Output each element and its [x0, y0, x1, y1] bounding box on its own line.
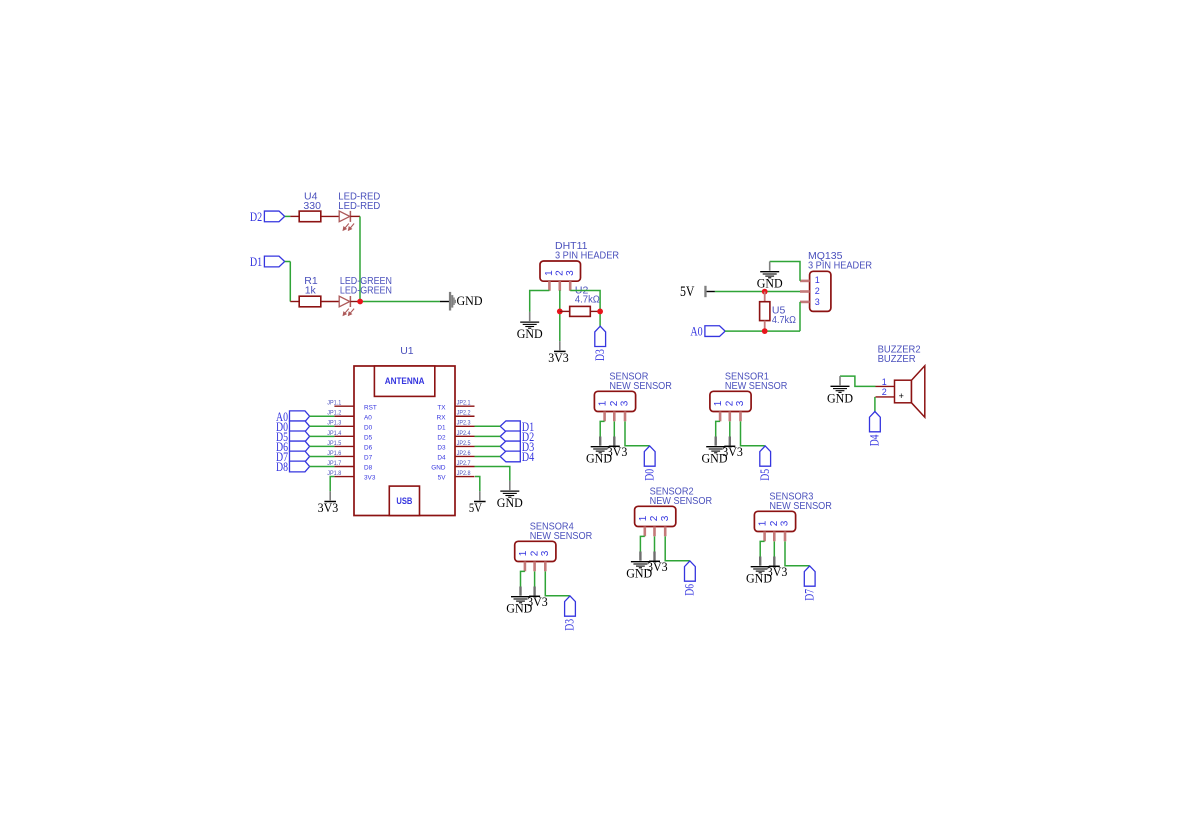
svg-text:3 PIN HEADER: 3 PIN HEADER [555, 249, 619, 261]
wire [625, 421, 649, 445]
wire [310, 445, 335, 447]
svg-text:D3: D3 [437, 445, 446, 452]
pin D3 [595, 326, 606, 346]
resistor R1 [299, 296, 321, 307]
svg-text:NEW SENSOR: NEW SENSOR [650, 495, 713, 507]
wire [310, 415, 335, 417]
svg-text:3V3: 3V3 [548, 351, 569, 365]
svg-text:GND: GND [497, 496, 523, 510]
wire [715, 291, 800, 293]
svg-text:3: 3 [620, 400, 631, 406]
ground [497, 481, 523, 510]
svg-text:1: 1 [713, 400, 724, 406]
svg-text:2: 2 [815, 286, 820, 296]
svg-text:JP2.8: JP2.8 [457, 470, 471, 477]
junction [357, 299, 363, 305]
svg-text:GND: GND [757, 277, 783, 291]
header SENSOR3 [754, 511, 795, 531]
svg-text:3 PIN HEADER: 3 PIN HEADER [808, 260, 872, 272]
wire [665, 536, 689, 560]
power symbol 3V3 [548, 341, 569, 365]
header MQ135 [810, 271, 831, 311]
pin D5 [760, 446, 771, 466]
wire [310, 435, 335, 437]
svg-text:3: 3 [815, 297, 820, 307]
pin D8 [290, 461, 310, 472]
svg-text:BUZZER: BUZZER [878, 353, 916, 365]
svg-text:2: 2 [882, 387, 887, 397]
wire [840, 376, 876, 386]
wire [285, 261, 291, 263]
pin A0 [290, 411, 310, 422]
svg-text:3: 3 [565, 270, 576, 276]
wire [640, 536, 644, 551]
wire [310, 425, 335, 427]
svg-text:D0: D0 [364, 424, 373, 431]
pin D5 [290, 431, 310, 442]
svg-text:D8: D8 [276, 459, 288, 474]
svg-text:D5: D5 [364, 434, 373, 441]
wire [799, 302, 801, 331]
svg-text:D0: D0 [642, 469, 656, 481]
svg-text:TX: TX [437, 404, 446, 411]
svg-text:LED-RED: LED-RED [338, 200, 380, 212]
ground [626, 552, 652, 581]
wire [741, 421, 765, 445]
pin D3 [500, 441, 520, 452]
svg-text:4.7kΩ: 4.7kΩ [772, 314, 796, 326]
pin D3 [565, 596, 576, 616]
pin JP1.8 [327, 470, 376, 482]
svg-text:U1: U1 [400, 345, 414, 357]
wire [290, 301, 299, 303]
svg-text:GND: GND [457, 294, 483, 308]
svg-text:RST: RST [364, 404, 377, 411]
pin JP2.4 [437, 430, 474, 442]
wire [613, 421, 615, 436]
svg-text:JP2.4: JP2.4 [457, 430, 471, 437]
ANTENNA block [374, 366, 434, 396]
pin JP1.7 [327, 460, 372, 472]
ground [517, 312, 543, 341]
svg-text:D4: D4 [868, 434, 882, 446]
svg-text:2: 2 [609, 400, 620, 406]
wire [321, 215, 339, 217]
wire [545, 571, 569, 595]
ground [746, 557, 772, 586]
wire [590, 310, 600, 312]
pin D2 [500, 431, 520, 442]
power symbol 3V3 [607, 437, 628, 460]
svg-text:JP2.7: JP2.7 [457, 460, 471, 467]
svg-text:NEW SENSOR: NEW SENSOR [530, 530, 593, 542]
wire [770, 262, 800, 281]
svg-text:LED-GREEN: LED-GREEN [340, 284, 392, 296]
svg-text:GND: GND [431, 465, 446, 472]
resistor U4 [299, 211, 321, 222]
wire [874, 397, 876, 412]
svg-text:JP2.1: JP2.1 [457, 400, 471, 407]
svg-text:1k: 1k [305, 284, 317, 296]
ground [827, 376, 853, 405]
ground [702, 437, 728, 466]
svg-text:USB: USB [396, 496, 412, 507]
svg-text:4.7kΩ: 4.7kΩ [575, 294, 600, 306]
svg-text:5V: 5V [680, 284, 695, 300]
svg-text:3V3: 3V3 [364, 475, 376, 482]
svg-text:3V3: 3V3 [722, 445, 743, 459]
svg-text:GND: GND [827, 391, 853, 405]
pin D6 [685, 561, 696, 581]
svg-text:D2: D2 [250, 209, 262, 224]
junction node [597, 309, 603, 315]
junction node [762, 328, 768, 334]
svg-text:2: 2 [555, 270, 566, 276]
pin JP2.2 [437, 410, 475, 422]
svg-text:3V3: 3V3 [607, 445, 628, 459]
header SENSOR4 [515, 541, 556, 561]
svg-text:D5: D5 [758, 469, 772, 481]
pin D4 [500, 451, 520, 462]
header SENSOR1 [710, 391, 751, 411]
svg-text:JP1.1: JP1.1 [327, 400, 341, 407]
header SENSOR2 [635, 506, 676, 526]
wire [521, 571, 525, 586]
svg-text:3V3: 3V3 [527, 595, 548, 609]
wire [475, 425, 501, 427]
pin JP2.7 [431, 460, 474, 472]
svg-text:1: 1 [518, 550, 529, 556]
USB block [389, 486, 419, 515]
resistor U2 [570, 306, 591, 316]
wire [310, 466, 335, 468]
svg-text:D4: D4 [522, 449, 535, 464]
wire [475, 467, 510, 481]
pin JP1.6 [327, 450, 372, 462]
pin JP1.4 [327, 430, 372, 442]
wire [785, 541, 809, 565]
svg-text:5V: 5V [438, 475, 447, 482]
svg-text:330: 330 [303, 200, 321, 212]
pin JP2.3 [437, 420, 474, 432]
svg-text:D4: D4 [437, 455, 446, 462]
pin D4 [870, 412, 881, 432]
svg-text:D7: D7 [364, 455, 373, 462]
svg-text:D6: D6 [364, 445, 373, 452]
svg-text:A0: A0 [364, 414, 372, 421]
power symbol 3V3 [318, 491, 339, 515]
power symbol 5V [469, 491, 486, 515]
wire [725, 330, 800, 332]
pin D0 [290, 421, 310, 432]
svg-text:JP2.3: JP2.3 [457, 420, 471, 427]
wire [654, 536, 656, 551]
svg-text:D1: D1 [250, 254, 262, 269]
svg-text:GND: GND [517, 327, 543, 341]
wire [560, 310, 570, 312]
wire [570, 291, 600, 327]
ground GND net label [449, 292, 483, 311]
pin JP2.6 [437, 450, 474, 462]
svg-text:ANTENNA: ANTENNA [385, 376, 425, 387]
wire [559, 290, 561, 341]
header SENSOR [594, 391, 635, 411]
svg-text:1: 1 [815, 275, 820, 285]
pin A0 [705, 326, 725, 337]
pin D1 [264, 256, 284, 267]
svg-text:3: 3 [735, 400, 746, 406]
wire [600, 421, 604, 436]
svg-text:D2: D2 [437, 434, 446, 441]
svg-text:+: + [899, 391, 904, 401]
pin JP1.1 [327, 400, 377, 412]
header DHT11 [540, 261, 581, 281]
pin D6 [290, 441, 310, 452]
wire [534, 571, 536, 586]
svg-text:1: 1 [598, 400, 609, 406]
pin D0 [644, 446, 655, 466]
resistor U5 [760, 302, 770, 321]
wire [475, 477, 480, 492]
pin D2 [264, 211, 284, 222]
wire [475, 435, 501, 437]
pin JP1.3 [327, 420, 372, 432]
pin JP2.5 [437, 440, 474, 452]
wire [290, 215, 299, 217]
svg-text:1: 1 [882, 377, 887, 387]
power symbol 3V3 [722, 437, 743, 460]
svg-text:3: 3 [660, 515, 671, 521]
wire [440, 301, 449, 303]
svg-text:JP2.2: JP2.2 [457, 410, 471, 417]
buzzer BUZZER2 [895, 366, 925, 417]
wire [475, 455, 501, 457]
svg-text:3: 3 [780, 520, 791, 526]
wire [321, 301, 339, 303]
svg-text:D7: D7 [802, 589, 816, 601]
wire [359, 216, 361, 301]
wire [760, 541, 764, 556]
svg-text:5V: 5V [469, 501, 482, 515]
svg-text:NEW SENSOR: NEW SENSOR [609, 380, 672, 392]
pin D7 [804, 566, 815, 586]
svg-text:3: 3 [540, 550, 551, 556]
power symbol 3V3 [647, 552, 668, 575]
wire [530, 291, 550, 312]
svg-text:NEW SENSOR: NEW SENSOR [769, 500, 832, 512]
svg-text:2: 2 [769, 520, 780, 526]
pin JP2.1 [437, 400, 474, 412]
ground [757, 262, 783, 291]
LED LED-GREEN [339, 296, 360, 315]
pin JP1.2 [327, 410, 372, 422]
ground [506, 587, 532, 616]
junction node [557, 309, 563, 315]
wire [716, 421, 720, 436]
svg-text:3V3: 3V3 [647, 560, 668, 574]
svg-text:JP2.6: JP2.6 [457, 450, 471, 457]
svg-text:RX: RX [437, 414, 447, 421]
wire [729, 421, 731, 436]
svg-text:D3: D3 [593, 349, 607, 361]
svg-text:D8: D8 [364, 465, 373, 472]
LED LED-RED [339, 211, 360, 230]
svg-text:3V3: 3V3 [318, 501, 339, 515]
ground [586, 437, 612, 466]
svg-text:2: 2 [649, 515, 660, 521]
junction node [762, 289, 768, 295]
svg-text:JP2.5: JP2.5 [457, 440, 471, 447]
wire [285, 215, 291, 217]
svg-text:1: 1 [544, 270, 555, 276]
wire [475, 445, 501, 447]
wire [310, 455, 335, 457]
power symbol 3V3 [527, 587, 548, 610]
wire [764, 292, 766, 302]
wire [764, 321, 766, 332]
pin D1 [500, 421, 520, 432]
svg-text:3V3: 3V3 [767, 565, 788, 579]
wire [330, 477, 334, 492]
svg-text:1: 1 [638, 515, 649, 521]
svg-text:1: 1 [758, 520, 769, 526]
svg-text:D6: D6 [683, 584, 697, 596]
svg-text:A0: A0 [690, 324, 702, 339]
svg-text:2: 2 [725, 400, 736, 406]
wire [289, 262, 291, 302]
svg-text:D3: D3 [563, 619, 577, 631]
svg-text:D1: D1 [437, 424, 446, 431]
power symbol 3V3 [767, 557, 788, 580]
wire [360, 301, 440, 303]
IC U1 body [354, 366, 455, 516]
pin JP2.8 [438, 470, 475, 482]
svg-text:NEW SENSOR: NEW SENSOR [725, 380, 788, 392]
pin D7 [290, 451, 310, 462]
svg-text:2: 2 [529, 550, 540, 556]
pin JP1.5 [327, 440, 372, 452]
wire [773, 541, 775, 556]
